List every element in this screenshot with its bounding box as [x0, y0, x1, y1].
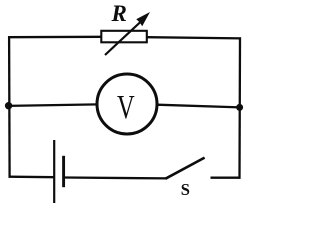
- wire top-right segment: [147, 37, 241, 38]
- wire switch right stub: [211, 177, 241, 179]
- rheostat R1 arrow: [105, 12, 150, 55]
- wire left vertical: [8, 36, 11, 177]
- voltmeter V1 circle: [97, 74, 157, 134]
- switch S lever: [166, 158, 205, 179]
- wire bottom-middle segment: [65, 176, 167, 179]
- battery cell long plate (+): [53, 140, 55, 203]
- svg-text:V: V: [117, 89, 135, 126]
- svg-text:S: S: [181, 180, 190, 199]
- wire voltmeter left segment: [8, 104, 98, 106]
- node junction dot right: [236, 104, 243, 111]
- battery cell short plate (-): [62, 156, 65, 187]
- svg-text:R: R: [111, 1, 127, 26]
- wire voltmeter right segment: [157, 105, 240, 108]
- node junction dot left: [5, 102, 12, 109]
- wire right vertical: [238, 37, 241, 178]
- wire bottom-left segment: [9, 176, 55, 179]
- rheostat R1 body: [101, 31, 147, 43]
- wire top-left segment: [8, 36, 102, 39]
